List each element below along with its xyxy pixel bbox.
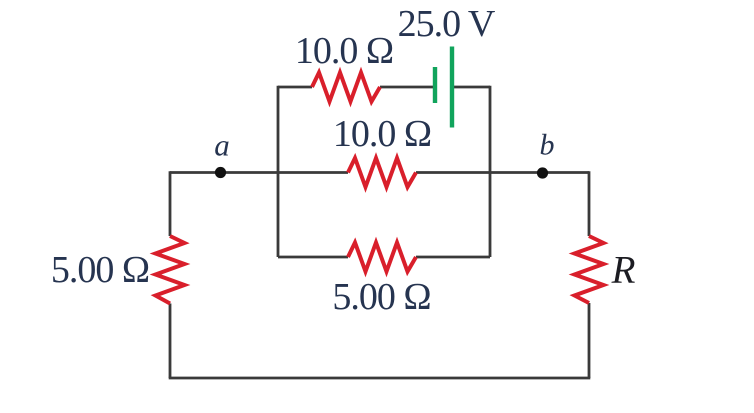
svg-text:b: b: [540, 129, 555, 162]
svg-text:R: R: [611, 249, 636, 292]
battery 25.0 V: long plate (positive): [450, 47, 454, 128]
wire: left vertical lower: [169, 304, 172, 379]
wire: inner top right segment (battery to corner): [452, 86, 490, 89]
wire: inner box right vertical: [489, 86, 492, 257]
svg-text:25.0 V: 25.0 V: [398, 3, 496, 45]
svg-text:5.00 Ω: 5.00 Ω: [51, 249, 149, 291]
svg-text:5.00 Ω: 5.00 Ω: [332, 276, 430, 318]
wire: inner bottom right segment: [416, 256, 490, 259]
wire: inner top middle segment (resistor to battery): [380, 86, 435, 89]
wire: inner box left vertical: [277, 86, 280, 257]
resistor R-mid 10.0 ohm (middle branch): [348, 158, 416, 187]
svg-text:a: a: [214, 128, 230, 163]
resistor R-bot 5.00 ohm (inner bottom branch): [348, 243, 416, 272]
wire: middle horizontal left (node a segment): [170, 171, 348, 174]
resistor R (right vertical): [575, 236, 604, 303]
wire: inner top left segment: [278, 86, 312, 89]
wire: left vertical upper: [169, 171, 172, 236]
node a junction dot: [215, 167, 226, 178]
wire: inner bottom left segment: [278, 256, 348, 259]
wire: right vertical upper: [588, 171, 591, 236]
resistor R-top 10.0 ohm (top branch): [312, 73, 380, 102]
resistor 5.00 ohm (left vertical): [156, 236, 185, 304]
svg-text:10.0 Ω: 10.0 Ω: [295, 30, 393, 72]
wire: middle horizontal right (node b segment): [416, 171, 589, 174]
wire: right vertical lower: [588, 303, 591, 378]
battery 25.0 V: short plate (negative): [433, 67, 437, 103]
wire: bottom horizontal: [169, 377, 591, 380]
node b junction dot: [537, 167, 548, 178]
svg-text:10.0 Ω: 10.0 Ω: [333, 113, 431, 155]
